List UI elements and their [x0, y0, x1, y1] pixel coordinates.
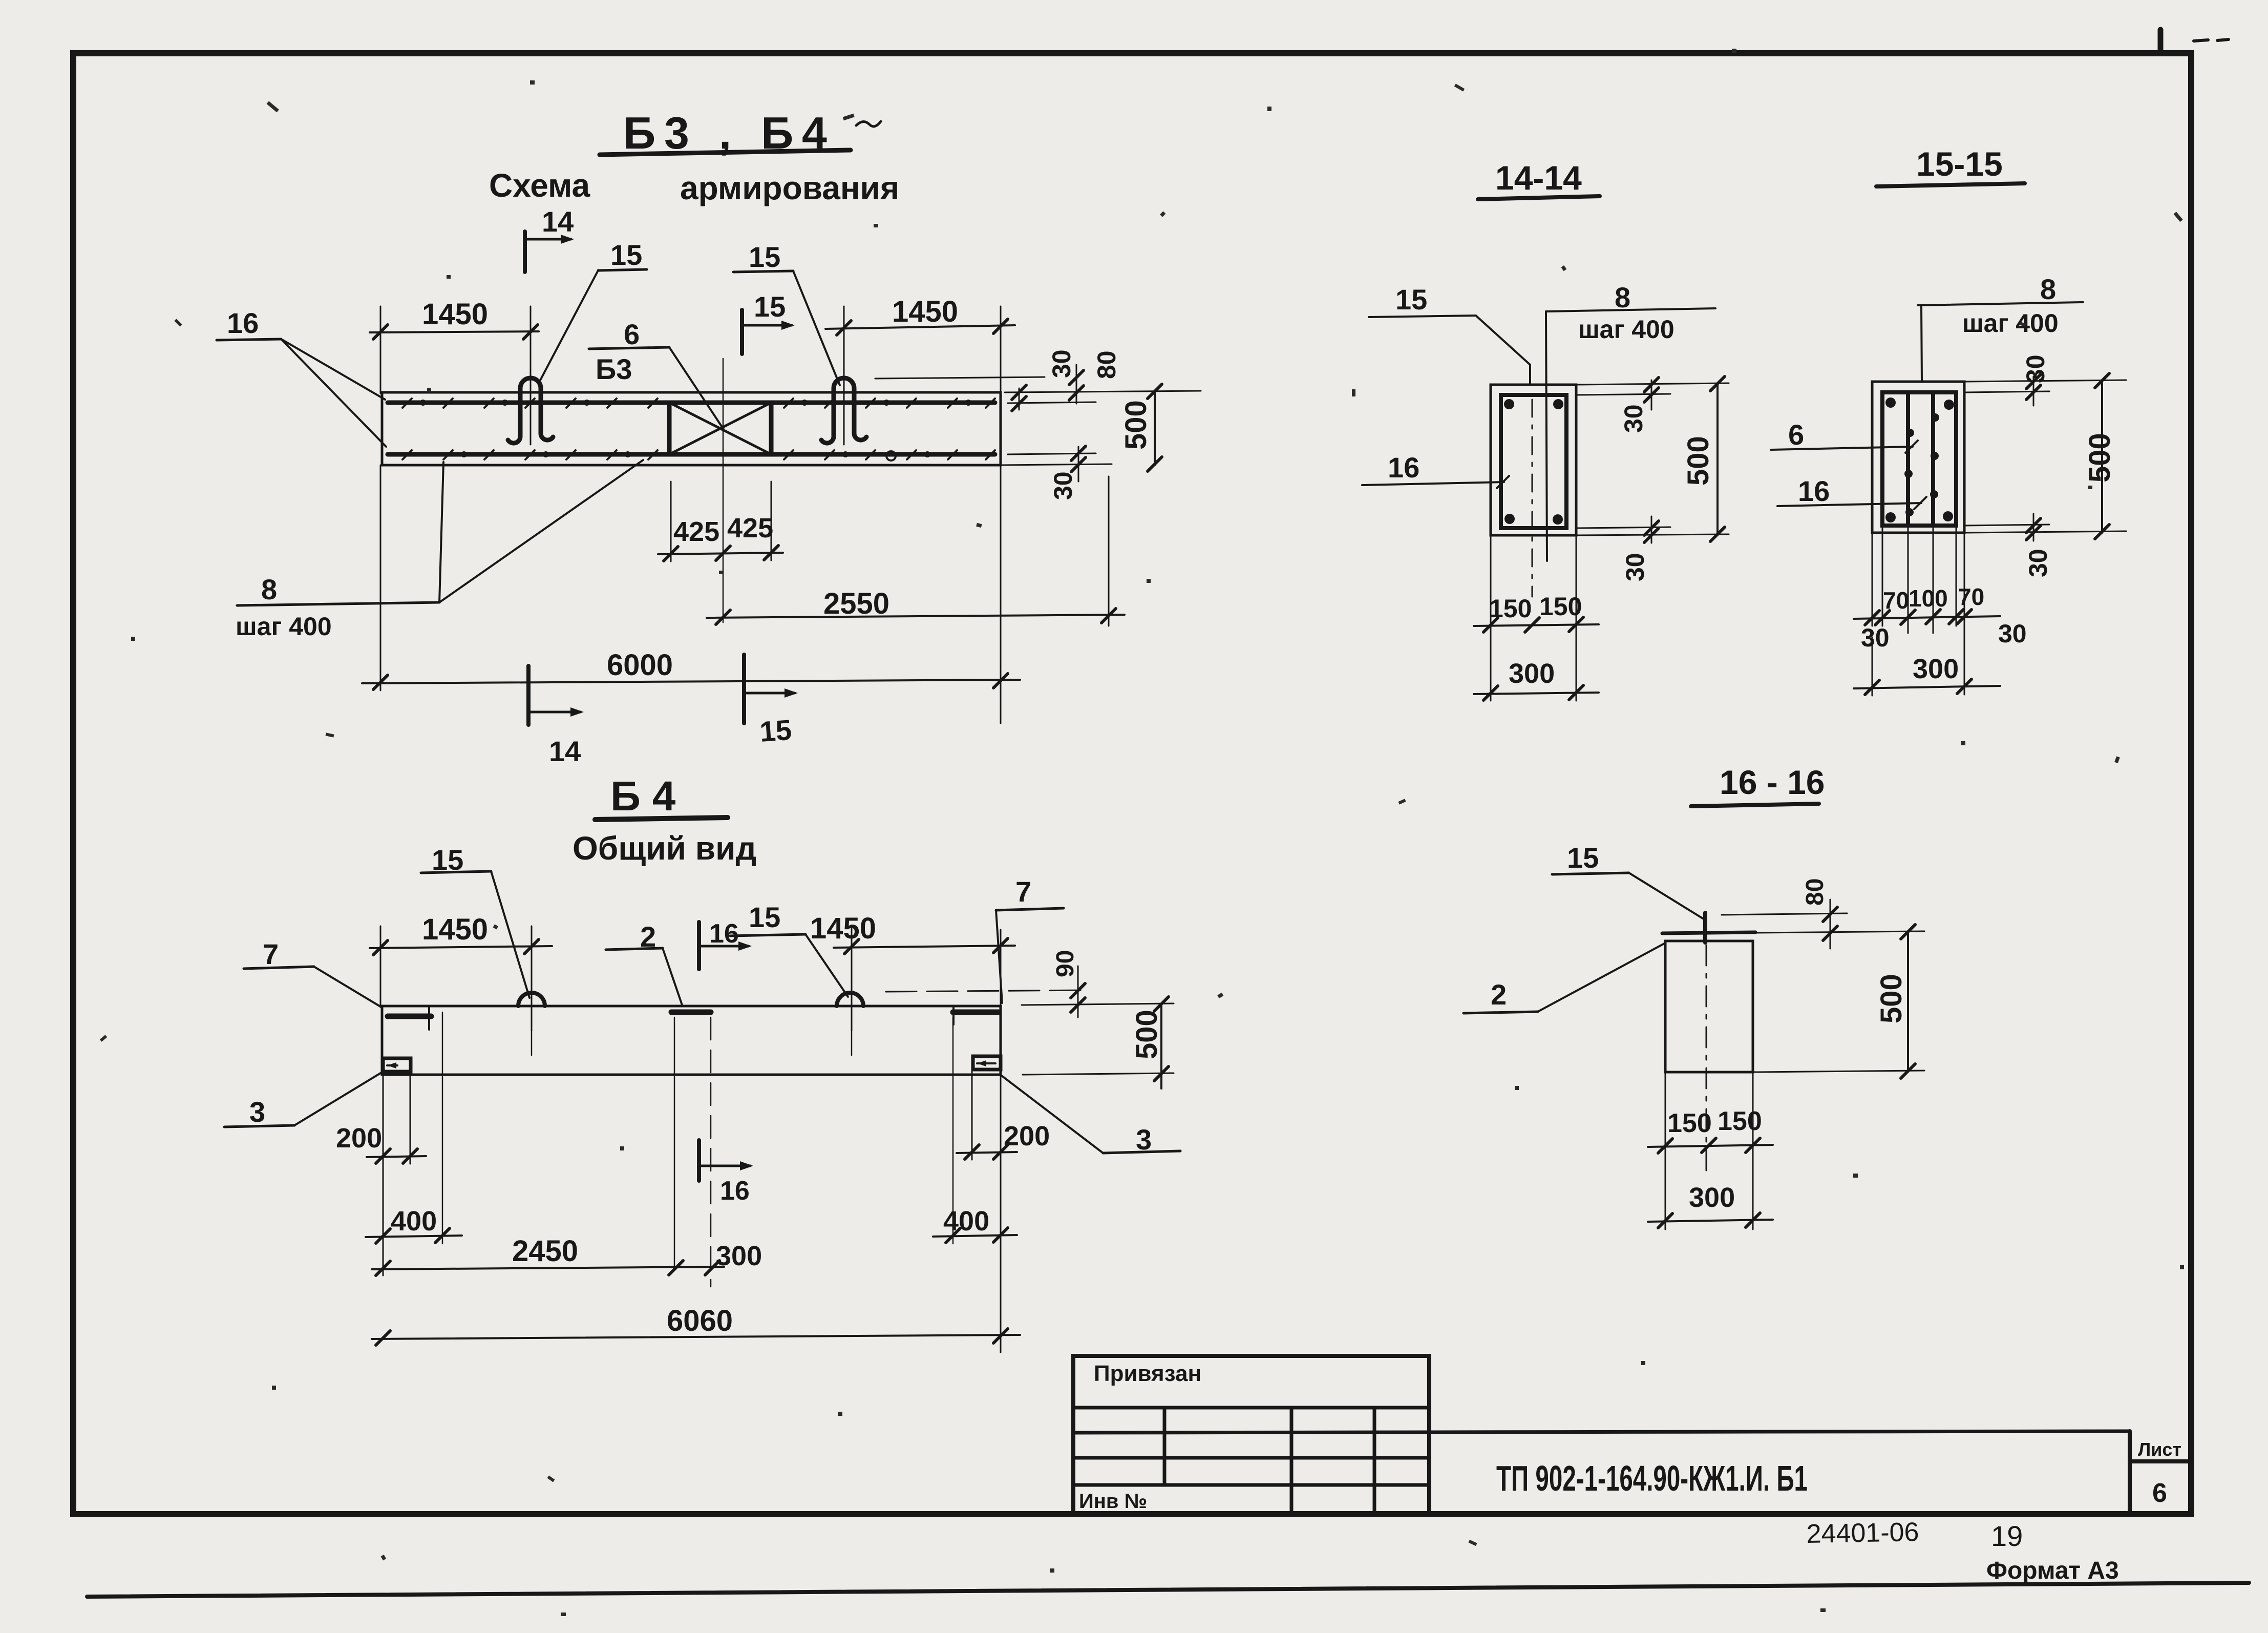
dimension 300 for 15-15 — [1854, 637, 2000, 696]
label 8 шаг 400 for section 15-15 — [1918, 273, 2083, 382]
dimension 150 150 for 14-14 — [1474, 535, 1599, 701]
svg-text:8: 8 — [2040, 273, 2056, 305]
embedded plate bottom right — [973, 1056, 1001, 1070]
svg-text:15: 15 — [749, 901, 780, 933]
svg-text:6: 6 — [1788, 418, 1804, 451]
dimension 1450 top right — [825, 295, 1015, 445]
plate top right end tick — [952, 1007, 955, 1024]
svg-text:1450: 1450 — [810, 912, 876, 945]
stirrup ticks on bottom bar — [402, 450, 995, 459]
svg-text:30: 30 — [1621, 553, 1649, 581]
svg-text:Формат А3: Формат А3 — [1986, 1557, 2119, 1584]
svg-text:6060: 6060 — [667, 1304, 733, 1337]
lifting loop left — [508, 378, 553, 443]
svg-text:14: 14 — [549, 735, 581, 767]
dimension 30 bottom for 14-14 — [1621, 516, 1659, 581]
embedded plate bottom left — [383, 1058, 411, 1072]
dimension 500 for 14-14 — [1682, 376, 1725, 541]
svg-text:30: 30 — [2021, 354, 2050, 383]
loop axis right — [851, 1031, 853, 1055]
dimension 80 for 16-16 — [1722, 878, 1847, 949]
title Б3 , Б4 — [623, 108, 827, 158]
svg-text:500: 500 — [1130, 1010, 1163, 1059]
title block row line 4 — [1073, 1483, 1429, 1487]
dimension 400 left — [366, 1012, 462, 1244]
svg-text:14-14: 14-14 — [1495, 159, 1582, 197]
section 15-15 stirrup — [1882, 392, 1956, 526]
svg-text:16: 16 — [227, 307, 259, 339]
dimension 30 bottom for 15-15 — [2024, 514, 2052, 577]
svg-text:300: 300 — [1509, 658, 1555, 689]
svg-text:30: 30 — [2024, 549, 2052, 577]
label 3 right — [1002, 1076, 1180, 1156]
label 16 for section 15-15 — [1777, 475, 1926, 509]
svg-text:500: 500 — [1682, 436, 1715, 486]
section 16-16 plate top line — [1662, 932, 1755, 933]
section 16-16 top extension — [1755, 931, 1924, 933]
section 14-14 corner rebars — [1504, 399, 1563, 525]
section 15-15 inner bar 1 — [1906, 394, 1910, 525]
dimension 30 top right — [1012, 349, 1076, 411]
dimension 6000 — [362, 465, 1020, 723]
dimension 30 top for 14-14 — [1619, 378, 1659, 433]
section 15-15 concrete outline — [1872, 382, 1964, 533]
section 15-15 rebar dots — [1885, 397, 1954, 522]
dimension 1450 top left — [370, 298, 539, 445]
dimension 200 left — [336, 1073, 426, 1275]
section 14-14 centerline — [1532, 400, 1533, 597]
dimension 500 for 15-15 — [2083, 373, 2116, 539]
svg-text:Привязан: Привязан — [1094, 1361, 1201, 1386]
section mark 15 bottom — [744, 655, 798, 748]
svg-text:100: 100 — [1909, 585, 1948, 612]
dimension 200 right — [957, 1072, 1050, 1352]
section 14-14 stirrup top extension — [1577, 394, 1670, 395]
dimension 2550 — [707, 476, 1125, 626]
section 16-16 body outline — [1665, 941, 1753, 1072]
dimension 500 general view — [1130, 997, 1169, 1088]
svg-text:16: 16 — [1798, 475, 1830, 507]
svg-text:425: 425 — [673, 516, 719, 547]
embedded plate top right — [953, 1010, 999, 1015]
svg-text:16: 16 — [1388, 451, 1419, 484]
top bar extension line right — [1008, 402, 1096, 403]
svg-text:2550: 2550 — [823, 587, 889, 620]
label 15 left loop general view — [421, 844, 529, 998]
label 6 for section 15-15 — [1771, 418, 1918, 453]
section mark 15 top middle — [742, 290, 795, 354]
svg-text:80: 80 — [1801, 878, 1829, 906]
section 14-14 header underline — [1478, 196, 1600, 199]
svg-text:400: 400 — [943, 1206, 989, 1237]
svg-text:500: 500 — [2083, 433, 2116, 483]
svg-text:Общий вид: Общий вид — [573, 830, 756, 867]
protruding loop bar 16-16 — [1703, 913, 1707, 943]
svg-text:шаг 400: шаг 400 — [236, 612, 332, 641]
svg-text:200: 200 — [336, 1123, 382, 1154]
svg-text:30: 30 — [1619, 404, 1648, 433]
svg-text:8: 8 — [261, 573, 277, 605]
dimension 1450 right general view — [810, 912, 1015, 1031]
label 15 left loop — [539, 239, 647, 382]
section 15-15 stirrup bottom extension — [1965, 525, 2049, 526]
section mark 16 bottom — [699, 1140, 753, 1206]
plate top left end tick — [428, 1007, 430, 1030]
svg-text:Б 4: Б 4 — [610, 773, 676, 820]
dimension 30 left outer for 15-15 — [1861, 623, 1890, 652]
embedded plate top left — [388, 1014, 431, 1019]
dimension 425 425 — [658, 481, 783, 561]
svg-text:Схема: Схема — [489, 167, 590, 204]
section mark 14 bottom — [528, 666, 584, 767]
title Б4 underline — [595, 818, 728, 820]
cross brace diagonal 1 — [669, 403, 771, 454]
label 7 left — [244, 938, 382, 1008]
svg-text:300: 300 — [1913, 654, 1959, 684]
svg-text:300: 300 — [716, 1241, 762, 1271]
dimension 6060 — [372, 1304, 1020, 1345]
svg-text:150: 150 — [1718, 1106, 1762, 1136]
section 16-16 bottom extension — [1753, 1071, 1924, 1072]
label 15 for section 14-14 — [1369, 283, 1530, 385]
dimension 400 right — [933, 1017, 1017, 1244]
svg-text:2450: 2450 — [512, 1234, 578, 1268]
dimension 300 general view — [716, 1241, 762, 1271]
title block column line a — [1163, 1408, 1167, 1485]
lifting loop left general view — [518, 993, 545, 1006]
svg-text:14: 14 — [542, 205, 574, 238]
dimension 30 right outer for 15-15 — [1998, 619, 2027, 648]
dimension 500 right — [1119, 384, 1162, 471]
beam bottom extension right general view — [1023, 1073, 1174, 1075]
subtitle Схема армирования — [489, 167, 899, 206]
svg-text:80: 80 — [1092, 350, 1121, 379]
svg-text:500: 500 — [1875, 974, 1908, 1023]
svg-text:16: 16 — [709, 919, 739, 949]
svg-text:15: 15 — [758, 714, 793, 748]
title underline — [600, 150, 851, 155]
svg-text:90: 90 — [1052, 950, 1079, 977]
beam bottom extension line right — [1001, 464, 1112, 465]
svg-text:15-15: 15-15 — [1916, 145, 2003, 183]
svg-text:7: 7 — [263, 938, 279, 970]
bottom longitudinal bar — [388, 452, 995, 457]
svg-text:7: 7 — [1015, 875, 1031, 908]
svg-text:Лист: Лист — [2138, 1439, 2181, 1460]
label 15 for section 16-16 — [1552, 842, 1705, 920]
sheet number box — [2130, 1431, 2191, 1514]
label 8 шаг 400 with leaders — [236, 460, 643, 641]
label 2 for section 16-16 — [1464, 944, 1664, 1013]
section 15-15 stirrup top extension — [1965, 391, 2049, 392]
section 15-15 header underline — [1876, 183, 2025, 186]
svg-text:16: 16 — [720, 1176, 750, 1206]
beam centerline — [723, 359, 724, 622]
label 15 right loop general view — [730, 901, 848, 997]
svg-text:шаг 400: шаг 400 — [1578, 315, 1674, 344]
beam outline general view — [382, 1006, 1001, 1075]
svg-text:200: 200 — [1004, 1121, 1050, 1152]
section 14-14 header — [1495, 159, 1582, 197]
beam top extension line right — [1005, 391, 1201, 392]
section 15-15 header — [1916, 145, 2003, 183]
section 14-14 stirrup — [1501, 395, 1566, 528]
svg-text:6: 6 — [2152, 1478, 2167, 1508]
bottom bar extension line right — [1008, 453, 1096, 454]
svg-text:Инв №: Инв № — [1079, 1490, 1147, 1513]
dimension 500 for 16-16 — [1875, 925, 1915, 1078]
section 16-16 header underline — [1691, 804, 1819, 806]
svg-text:шаг 400: шаг 400 — [1962, 309, 2059, 338]
section 15-15 bottom extension line — [1964, 531, 2126, 533]
svg-text:1450: 1450 — [422, 913, 488, 946]
label 8 шаг 400 for section 14-14 — [1546, 281, 1715, 561]
cross brace verticals — [667, 403, 672, 454]
cross brace diagonal 2 — [669, 403, 771, 454]
svg-text:ТП 902-1-164.90-КЖ1.И. Б1: ТП 902-1-164.90-КЖ1.И. Б1 — [1496, 1458, 1808, 1498]
dimension 2450 — [372, 1234, 724, 1275]
subtitle Общий вид — [573, 830, 756, 867]
svg-text:500: 500 — [1119, 400, 1153, 450]
section 15-15 top extension line — [1964, 380, 2126, 382]
section 14-14 concrete outline — [1491, 385, 1576, 535]
svg-text:16 - 16: 16 - 16 — [1720, 763, 1825, 801]
embedded plate top middle — [671, 1010, 711, 1015]
label 2 general view — [606, 920, 682, 1005]
section 14-14 stirrup bottom extension — [1577, 527, 1670, 528]
bottom bar open circle — [886, 451, 896, 460]
title block column line c — [1373, 1408, 1376, 1514]
section 14-14 top extension line — [1576, 383, 1729, 385]
svg-text:30: 30 — [1998, 619, 2027, 648]
loop axis left — [531, 1031, 533, 1055]
title block outer box — [1073, 1356, 1429, 1514]
dimension 80 right — [1069, 350, 1121, 404]
svg-text:425: 425 — [727, 513, 773, 543]
svg-text:150: 150 — [1667, 1108, 1712, 1138]
lifting loop right — [821, 378, 866, 443]
beam top extension right general view — [1022, 1003, 1174, 1005]
svg-text:15: 15 — [1395, 283, 1427, 316]
svg-text:1450: 1450 — [892, 295, 958, 328]
beam outline (reinforcement scheme) — [382, 392, 1001, 465]
plate edge line left of section — [674, 1017, 675, 1269]
dimension 30 bottom right — [1049, 446, 1086, 500]
dimension 90 — [1052, 950, 1085, 1017]
label 15 right loop — [733, 241, 840, 385]
title block row line 3 — [1073, 1456, 1429, 1460]
top longitudinal bar — [388, 401, 995, 405]
svg-text:6000: 6000 — [607, 648, 673, 682]
svg-text:15: 15 — [754, 290, 786, 323]
hook top level extension line — [875, 377, 1045, 379]
label 6 / Б3 leader to cross brace — [589, 318, 724, 429]
dimension 1450 left general view — [370, 913, 552, 1031]
label 7 right — [996, 875, 1064, 1003]
dimension 70 100 70 for 15-15 — [1854, 525, 2000, 695]
label 16 left with two leaders — [217, 307, 386, 447]
svg-text:70: 70 — [1958, 583, 1984, 610]
svg-text:2: 2 — [1491, 978, 1507, 1011]
bottom sheet edge line — [87, 1583, 2249, 1597]
section 15-15 inner bar 2 — [1931, 394, 1935, 525]
svg-text:70: 70 — [1883, 587, 1909, 614]
svg-text:3: 3 — [249, 1096, 265, 1128]
title Б4 — [610, 773, 676, 820]
svg-text:15: 15 — [749, 241, 780, 273]
section 16-16 header — [1720, 763, 1825, 801]
loop top level extension dashed — [886, 990, 1090, 992]
rebar dots on bars — [420, 400, 971, 457]
svg-text:армирования: армирования — [680, 170, 899, 206]
title block row line 1 — [1073, 1406, 1429, 1410]
svg-text:Б3: Б3 — [596, 353, 632, 385]
svg-text:19: 19 — [1991, 1520, 2023, 1552]
svg-text:15: 15 — [610, 239, 642, 271]
svg-text:30: 30 — [1049, 471, 1077, 500]
svg-text:400: 400 — [391, 1206, 437, 1237]
svg-text:24401-06: 24401-06 — [1806, 1517, 1919, 1549]
plate edge line right of section dashed — [710, 1017, 712, 1287]
dimension 150 150 for 16-16 — [1648, 1072, 1773, 1229]
label 3 left — [224, 1072, 383, 1128]
title block column line b — [1290, 1408, 1294, 1514]
label 16 for section 14-14 — [1362, 451, 1509, 488]
svg-text:15: 15 — [1567, 842, 1599, 874]
section mark 14 top — [525, 205, 574, 272]
svg-text:30: 30 — [1047, 349, 1076, 378]
lifting loop right general view — [837, 993, 863, 1006]
dimension 300 for 14-14 — [1474, 658, 1599, 700]
section 14-14 bottom extension line — [1576, 534, 1729, 535]
svg-text:8: 8 — [1615, 281, 1630, 313]
svg-text:1450: 1450 — [422, 298, 488, 331]
dimension 30 top for 15-15 — [2021, 354, 2050, 406]
svg-text:300: 300 — [1689, 1182, 1735, 1213]
title block row line 2 / title strip top — [1073, 1431, 2130, 1433]
section 16-16 centerline — [1706, 945, 1707, 1170]
dimension 300 for 16-16 — [1648, 1182, 1773, 1228]
section mark 16 top — [699, 919, 752, 969]
svg-text:6: 6 — [624, 318, 640, 350]
stirrup ticks on top bar — [402, 399, 995, 408]
svg-text:30: 30 — [1861, 623, 1890, 652]
